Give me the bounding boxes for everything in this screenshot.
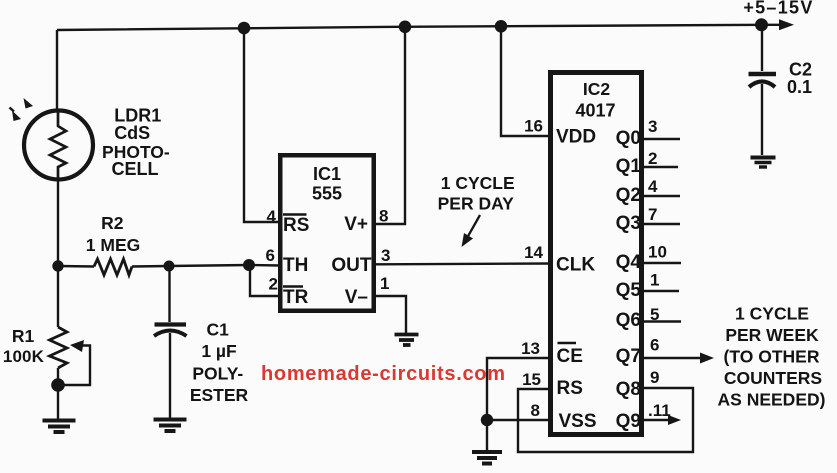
svg-text:RS: RS: [283, 215, 309, 236]
node junction dot A (IC1 pin4 riser): [238, 22, 251, 35]
svg-text:14: 14: [524, 243, 543, 262]
svg-text:4017: 4017: [575, 101, 615, 121]
svg-text:VDD: VDD: [556, 127, 596, 148]
wire node F to node G: [169, 265, 249, 266]
svg-text:POLY-: POLY-: [192, 364, 243, 384]
svg-text:IC2: IC2: [583, 79, 611, 99]
node junction dot C (IC2 VDD riser): [495, 20, 508, 33]
svg-text:R1: R1: [12, 326, 35, 346]
wire supply rail down to LDR1: [56, 30, 58, 112]
svg-text:1: 1: [380, 274, 389, 293]
svg-text:CdS: CdS: [114, 123, 150, 143]
svg-text:7: 7: [648, 205, 657, 224]
ground below IC2: [472, 452, 502, 464]
wire IC2 CE to ground node: [487, 358, 550, 420]
label IC1 555: [312, 164, 342, 204]
svg-text:.11: .11: [648, 401, 671, 420]
svg-text:3: 3: [381, 246, 390, 265]
wire IC1 pin 8 riser: [374, 27, 405, 224]
node junction dot D (C2 top): [755, 18, 768, 31]
wire ground node down: [486, 420, 488, 450]
svg-text:13: 13: [521, 339, 540, 358]
wire IC2 VSS to ground node: [487, 419, 550, 421]
wire IC1 pin 3 OUT to IC2 CLK: [374, 262, 550, 265]
svg-text:V+: V+: [344, 214, 368, 235]
svg-text:RS: RS: [557, 378, 583, 399]
counter IC2 4017 box: [551, 73, 642, 435]
svg-text:Q4: Q4: [616, 252, 642, 273]
node junction dot F (C1 top): [164, 261, 175, 272]
svg-text:9: 9: [650, 368, 659, 387]
capacitor C2: [749, 25, 777, 155]
node junction dot I (CE/VSS ground): [481, 414, 493, 426]
svg-text:V–: V–: [345, 287, 368, 308]
label C2 0.1: [787, 60, 812, 98]
ground below C1: [154, 420, 187, 432]
svg-text:CLK: CLK: [556, 255, 595, 276]
svg-text:555: 555: [312, 184, 342, 204]
svg-text:Q8: Q8: [616, 379, 641, 400]
pin Q1 stub and number 2: [616, 149, 678, 177]
node +5-15V supply label: [743, 0, 813, 18]
pin Q6 stub and number 5: [616, 305, 681, 331]
label R1 100K: [3, 326, 45, 366]
pin 2 label TR bar: [269, 275, 309, 309]
label IC2 4017: [575, 79, 615, 121]
pin Q9 arrow and number 11: [616, 401, 681, 432]
svg-text:homemade-circuits.com: homemade-circuits.com: [261, 363, 505, 385]
svg-text:TR: TR: [283, 287, 309, 308]
pin Q2 stub and number 4: [616, 177, 680, 206]
svg-text:Q5: Q5: [616, 280, 642, 301]
svg-text:100K: 100K: [3, 347, 45, 366]
label LDR1 CdS PHOTO-CELL: [102, 106, 170, 180]
capacitor C1: [154, 266, 187, 418]
svg-text:CE: CE: [557, 346, 583, 367]
pin Q0 stub and number 3: [616, 117, 680, 149]
svg-text:16: 16: [524, 117, 543, 136]
wire LDR1 bottom to node E: [57, 180, 59, 266]
svg-text:ESTER: ESTER: [190, 385, 249, 405]
svg-text:10: 10: [648, 243, 667, 262]
light arrow 1 into LDR1: [24, 98, 34, 109]
svg-text:2: 2: [648, 149, 657, 168]
pin 14 label CLK: [524, 243, 595, 276]
svg-text:Q6: Q6: [616, 310, 641, 331]
svg-text:Q7: Q7: [616, 346, 641, 367]
svg-text:PER WEEK: PER WEEK: [725, 325, 819, 345]
pin Q8 stub and number 9: [616, 368, 660, 400]
svg-text:4: 4: [648, 177, 658, 196]
wire IC1 pin 4 riser: [244, 28, 280, 222]
svg-text:0.1: 0.1: [787, 77, 812, 97]
svg-text:1 CYCLE: 1 CYCLE: [735, 304, 809, 324]
wire node G to IC1 pin 6 TH: [249, 264, 280, 267]
svg-text:8: 8: [379, 207, 388, 226]
resistor R2: [58, 259, 169, 275]
photoresistor LDR1 circle: [24, 111, 93, 181]
pin Q5 stub and number 1: [616, 271, 679, 302]
node junction dot B (IC1 pin8 riser): [399, 21, 412, 34]
svg-text:2: 2: [269, 275, 278, 294]
svg-text:3: 3: [648, 117, 657, 136]
svg-text:PER DAY: PER DAY: [438, 194, 515, 214]
pin Q4 stub and number 10: [616, 243, 681, 274]
svg-text:1 MEG: 1 MEG: [86, 235, 140, 255]
arrow to CLK wire: [462, 215, 481, 247]
wire R1 to ground: [57, 385, 59, 419]
svg-text:+5–15V: +5–15V: [743, 0, 813, 18]
svg-text:IC1: IC1: [313, 164, 341, 184]
svg-text:CELL: CELL: [112, 159, 159, 179]
pin 15 label RS: [522, 370, 583, 399]
ground below C2: [751, 158, 776, 168]
ground below IC1 pin 1: [395, 335, 419, 346]
wire IC2 RS to Q8 loop: [518, 388, 693, 452]
svg-text:1: 1: [650, 271, 659, 290]
pin 8 label VSS: [531, 401, 597, 432]
svg-text:Q1: Q1: [616, 156, 642, 177]
potentiometer R1: [50, 266, 91, 385]
svg-text:Q2: Q2: [616, 185, 641, 206]
svg-text:1 µF: 1 µF: [201, 341, 237, 361]
svg-text:1 CYCLE: 1 CYCLE: [441, 173, 515, 193]
pin Q3 stub and number 7: [616, 205, 680, 234]
svg-text:TH: TH: [283, 255, 308, 276]
svg-text:(TO OTHER: (TO OTHER: [724, 347, 820, 367]
svg-text:OUT: OUT: [331, 255, 372, 276]
pin 6 label TH: [266, 246, 309, 276]
ground below R1: [43, 421, 76, 433]
svg-text:15: 15: [522, 370, 541, 389]
watermark homemade-circuits.com: [261, 363, 505, 385]
pin 4 label and RS bar: [267, 207, 310, 236]
timer IC1 555 box: [280, 155, 374, 311]
node junction dot E: [52, 260, 63, 271]
svg-text:8: 8: [531, 401, 540, 420]
svg-text:COUNTERS: COUNTERS: [724, 368, 822, 388]
wire node G to IC1 pin 2 TR: [250, 265, 280, 296]
svg-text:Q9: Q9: [616, 411, 641, 432]
label R2 1 MEG: [86, 213, 140, 255]
pin 1 label V-: [345, 274, 390, 308]
svg-text:6: 6: [650, 336, 659, 355]
label C1 1uF POLYESTER: [190, 320, 249, 406]
wire top supply rail: [57, 19, 794, 30]
light arrow 2 into LDR1: [10, 108, 22, 122]
node junction dot H (R1 wiper): [51, 378, 65, 392]
svg-text:Q3: Q3: [616, 213, 641, 234]
wire IC2 VDD riser: [501, 27, 550, 137]
svg-text:AS NEEDED): AS NEEDED): [718, 390, 826, 410]
pin 16 label VDD: [524, 117, 596, 148]
pin 3 label OUT: [331, 246, 390, 276]
pin 13 label CE bar: [521, 339, 583, 367]
node junction dot G (TH/TR split): [243, 259, 255, 271]
svg-text:Q0: Q0: [616, 128, 641, 149]
wire IC1 pin 1 to ground: [374, 296, 406, 333]
svg-text:6: 6: [266, 246, 275, 265]
svg-text:C1: C1: [207, 320, 230, 340]
svg-text:R2: R2: [101, 213, 124, 233]
pin Q7 arrow and number 6: [616, 336, 714, 368]
label 1 CYCLE PER WEEK (TO OTHER COUNTERS AS NEEDED): [718, 304, 826, 410]
pin 8 label V+: [344, 207, 388, 236]
label 1 CYCLE PER DAY: [438, 173, 515, 214]
svg-text:VSS: VSS: [559, 411, 597, 432]
